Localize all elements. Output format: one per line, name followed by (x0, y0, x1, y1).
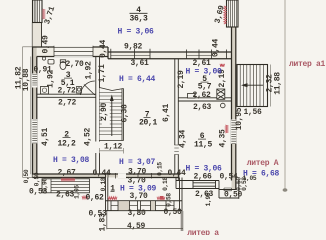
svg-text:0,50: 0,50 (34, 172, 41, 186)
veranda bottom wall with windows (106, 201, 183, 211)
svg-text:4,35: 4,35 (219, 129, 228, 148)
svg-text:4,34: 4,34 (179, 130, 188, 149)
veranda window glazing (111, 205, 174, 207)
svg-text:1,92: 1,92 (85, 61, 94, 80)
svg-text:0,62: 0,62 (85, 194, 104, 203)
left porch with steps (42, 179, 90, 193)
svg-text:6,38: 6,38 (120, 104, 129, 123)
stair arrow up (111, 98, 113, 136)
svg-text:11,5: 11,5 (194, 141, 213, 150)
svg-text:Н = 6,68: Н = 6,68 (243, 170, 280, 179)
svg-text:2,70: 2,70 (65, 60, 84, 69)
red marks under room 2 wall (61, 178, 75, 181)
dimension ticks bottom wall (108, 172, 179, 179)
svg-text:0,44: 0,44 (167, 169, 186, 178)
veranda right wall (180, 178, 183, 212)
svg-text:12,2: 12,2 (57, 139, 76, 148)
svg-text:3,80: 3,80 (127, 209, 146, 218)
svg-text:0,50: 0,50 (224, 191, 243, 200)
svg-text:6,41: 6,41 (162, 104, 171, 123)
svg-text:0,18: 0,18 (100, 177, 107, 191)
stair arrow left (243, 84, 263, 86)
door arc room 3 (81, 81, 95, 95)
dim line under stairs (100, 148, 124, 154)
svg-text:0,50: 0,50 (23, 169, 30, 183)
window glazing lines (111, 54, 212, 56)
red marks at top-left chimney (42, 9, 45, 19)
toilet in room 3 (60, 62, 66, 70)
svg-text:1,83: 1,83 (99, 213, 108, 232)
svg-text:20,1: 20,1 (139, 118, 158, 127)
vent window on wall of room 5 (188, 94, 196, 99)
top-left chimney (33, 0, 43, 23)
top-right chimney (227, 0, 239, 27)
left inner dimension line 10,88 (30, 57, 32, 175)
door ticks of hall-room6 opening (174, 145, 179, 155)
svg-text:2,72: 2,72 (57, 87, 76, 96)
svg-text:2,72: 2,72 (58, 98, 77, 107)
svg-text:2,67: 2,67 (57, 169, 76, 178)
svg-text:литер а1: литер а1 (289, 60, 326, 69)
rear porch outline (219, 180, 239, 199)
left outer dimension line 11,82 (23, 47, 33, 178)
stove circle in room 6 (221, 103, 226, 108)
wall between room 3 and room 2 (37, 94, 96, 97)
red marks veranda right (157, 197, 165, 200)
svg-text:9,82: 9,82 (124, 43, 143, 52)
svg-text:2: 2 (64, 131, 69, 140)
right wall window (room 6) (231, 120, 236, 145)
svg-text:3,61: 3,61 (130, 59, 149, 68)
red marks left of top-right chimney (224, 6, 227, 24)
svg-text:Н = 3,07: Н = 3,07 (119, 158, 156, 167)
svg-text:литер А: литер А (247, 159, 279, 168)
fold line end mark (283, 188, 288, 192)
veranda piers (118, 201, 130, 210)
left wall window (room 3) (32, 74, 37, 88)
red marks room 5 top (220, 64, 225, 67)
door gap in bottom wall (118, 173, 126, 178)
svg-text:1,12: 1,12 (104, 143, 123, 152)
right exterior wall (232, 27, 236, 190)
rear porch step bracket (224, 188, 232, 191)
red marks before 0,62 (82, 196, 88, 199)
left wall window (room 2) (32, 119, 37, 144)
svg-text:2,90: 2,90 (100, 103, 109, 122)
svg-text:5,7: 5,7 (198, 83, 212, 92)
white backing for 2,90 (102, 103, 110, 126)
svg-text:0,53: 0,53 (241, 177, 248, 191)
svg-text:2,66: 2,66 (193, 172, 212, 181)
svg-text:2,62: 2,62 (192, 91, 211, 100)
top exterior wall, left section (37, 47, 108, 57)
svg-text:36,3: 36,3 (129, 15, 148, 24)
wall between room 5 and room 6 (178, 98, 231, 101)
washing machine in room 3 (41, 87, 49, 95)
svg-text:Н = 3,00: Н = 3,00 (185, 68, 222, 77)
svg-text:2,63: 2,63 (56, 191, 75, 200)
svg-text:0,44: 0,44 (92, 169, 111, 178)
flue box with cross at room 5/6 corner (217, 89, 225, 99)
window ticks on top wall (111, 49, 227, 59)
vent circle top wall room 3 (42, 57, 45, 60)
svg-text:2,63: 2,63 (193, 103, 212, 112)
svg-text:Н = 3,09: Н = 3,09 (120, 184, 157, 193)
top-left wall shaft under chimney (33, 23, 42, 47)
interior wall between hall 7 and rooms 5/6 (175, 59, 179, 181)
veranda left wall (106, 174, 108, 211)
svg-text:1,56: 1,56 (243, 108, 262, 117)
svg-text:10,95: 10,95 (235, 107, 244, 130)
svg-text:1: 1 (110, 185, 115, 194)
red rect at rear porch (160, 196, 164, 200)
svg-text:10,88: 10,88 (22, 68, 31, 91)
svg-text:0,50: 0,50 (163, 208, 182, 217)
small stove in room 2 top (77, 87, 82, 94)
room 6 bottom wall with window (176, 178, 219, 199)
svg-text:Н = 3,08: Н = 3,08 (53, 156, 90, 165)
bottom exterior wall (left part) (33, 174, 180, 178)
window in top-left wall (54, 46, 93, 57)
top exterior wall, right section (108, 52, 236, 59)
left exterior wall (33, 47, 37, 178)
svg-text:Н = 6,44: Н = 6,44 (119, 75, 156, 84)
svg-text:Н = 3,06: Н = 3,06 (117, 28, 154, 37)
svg-text:1,92: 1,92 (47, 70, 56, 89)
svg-text:1,96: 1,96 (205, 192, 212, 206)
interior wall between rooms 2/3 and hall 7 (96, 57, 100, 175)
red marks right wall window (225, 125, 228, 133)
red marks veranda left (108, 197, 117, 200)
svg-text:4,52: 4,52 (84, 128, 93, 147)
svg-text:1,71: 1,71 (98, 64, 107, 83)
svg-text:1,05: 1,05 (74, 185, 81, 199)
svg-text:литер а: литер а (187, 229, 219, 235)
svg-text:0,44: 0,44 (212, 39, 221, 58)
svg-text:5,1: 5,1 (61, 79, 75, 88)
svg-text:0,18: 0,18 (162, 177, 169, 191)
svg-text:0,44: 0,44 (99, 40, 108, 59)
vertical paper fold line (284, 0, 286, 189)
svg-text:11,88: 11,88 (274, 72, 283, 95)
sink in room 3 (48, 60, 54, 65)
main staircase block (100, 88, 124, 141)
dim line right of stairs (270, 65, 272, 107)
svg-text:4,59: 4,59 (127, 222, 146, 231)
svg-text:Н = 3,06: Н = 3,06 (185, 165, 222, 174)
liter a porch outline (107, 211, 183, 231)
svg-text:0,49: 0,49 (42, 35, 51, 54)
svg-text:4,51: 4,51 (41, 128, 50, 147)
svg-text:0,15: 0,15 (157, 162, 164, 176)
svg-text:0,58: 0,58 (165, 193, 172, 207)
svg-text:3,70: 3,70 (128, 167, 147, 176)
svg-text:0,96: 0,96 (42, 178, 49, 192)
liter a1 external stairs (237, 65, 268, 107)
